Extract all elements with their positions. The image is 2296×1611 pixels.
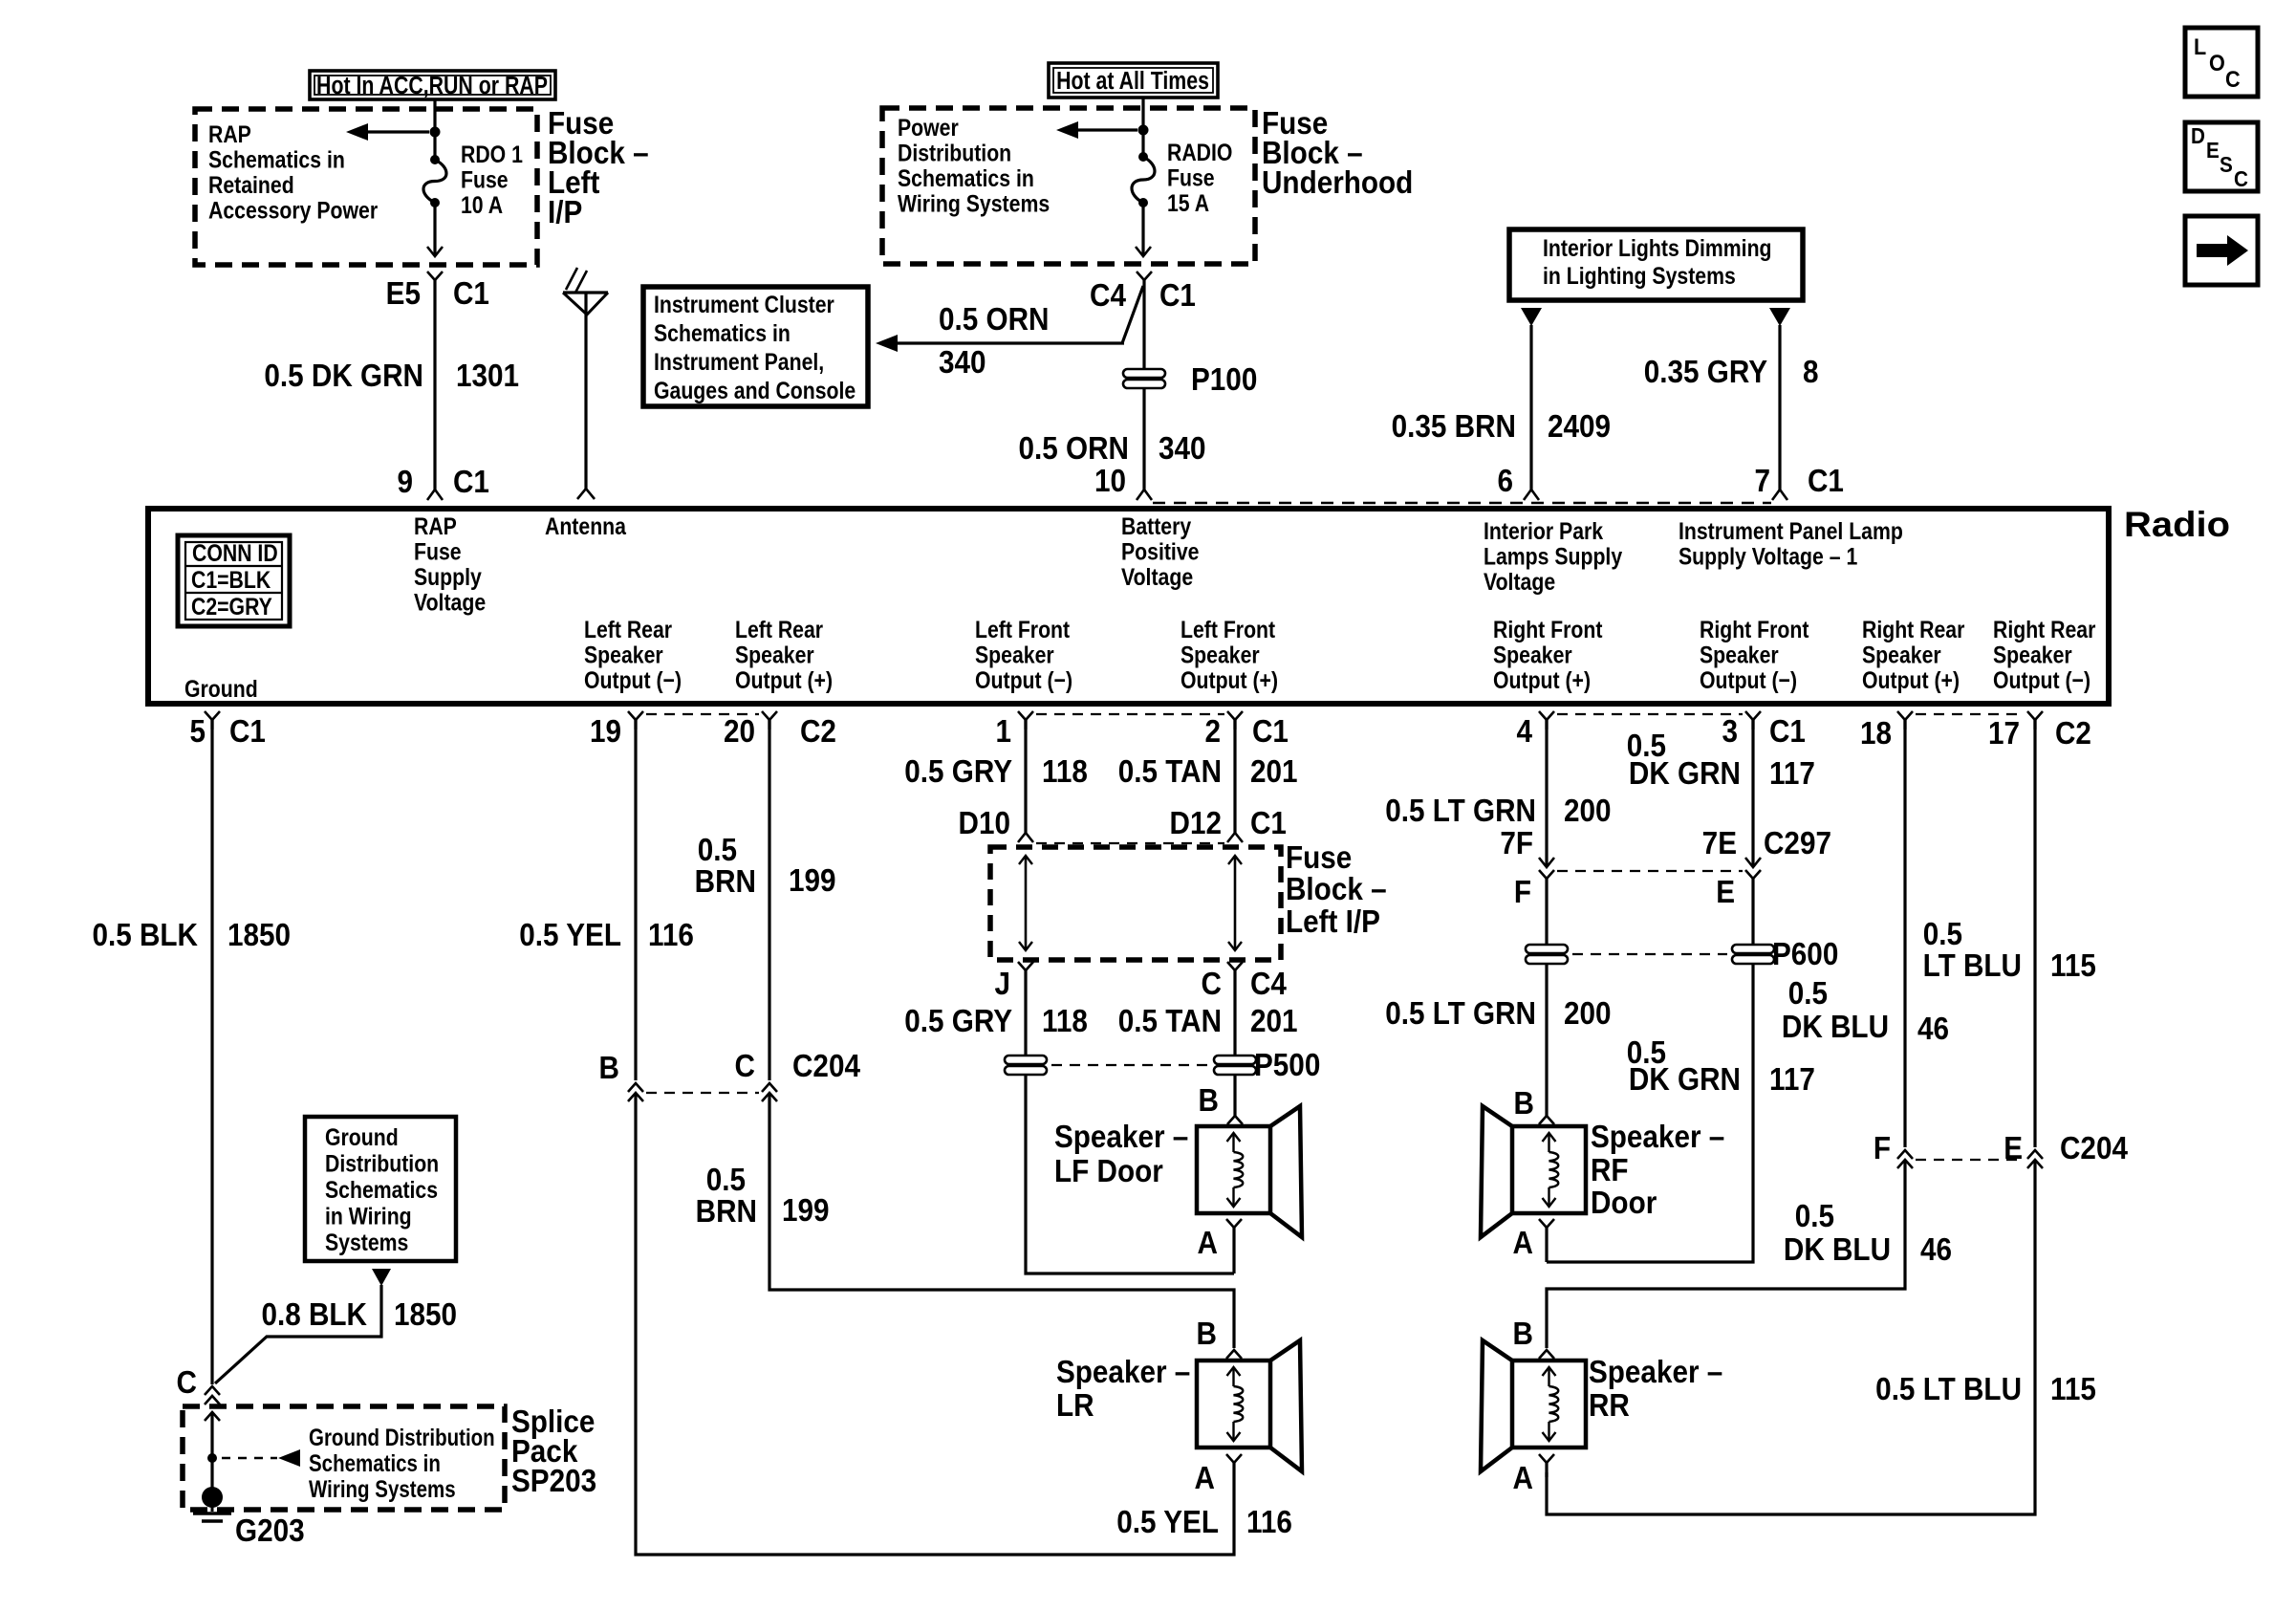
label 0.5 DK GRN 1301 xyxy=(264,359,519,394)
svg-text:Instrument Cluster: Instrument Cluster xyxy=(654,291,834,317)
svg-text:6: 6 xyxy=(1497,464,1513,499)
svg-text:116: 116 xyxy=(648,918,694,953)
label 17 C2 xyxy=(1988,716,2091,751)
triangle connector to panel lamp wire xyxy=(1769,308,1790,326)
svg-text:0.5 LT GRN: 0.5 LT GRN xyxy=(1385,996,1536,1032)
svg-text:118: 118 xyxy=(1042,754,1088,790)
inline connector P500 left half xyxy=(1005,1056,1047,1064)
inline connector P100 xyxy=(1123,369,1165,378)
svg-text:D12: D12 xyxy=(1170,806,1222,841)
connector 7E/C297 arrow xyxy=(1745,858,1761,867)
label C C204 xyxy=(735,1049,861,1084)
wire 201 to LF speaker B xyxy=(1233,970,1236,1117)
svg-text:C204: C204 xyxy=(2060,1131,2128,1166)
svg-text:199: 199 xyxy=(782,1193,830,1229)
label RADIO Fuse 15 A xyxy=(1167,139,1232,216)
svg-text:Right Rear: Right Rear xyxy=(1993,616,2095,642)
svg-text:Instrument Panel,: Instrument Panel, xyxy=(654,348,824,375)
radio pin name Interior Park Lamps Supply Voltage xyxy=(1484,517,1622,595)
svg-text:0.35 BRN: 0.35 BRN xyxy=(1392,409,1516,445)
radio pin name Left Front Speaker Output (-) xyxy=(975,616,1072,693)
DESC legend box xyxy=(2185,122,2258,191)
svg-text:Schematics in: Schematics in xyxy=(208,146,345,173)
svg-text:C1: C1 xyxy=(229,714,266,750)
connector A of LF speaker xyxy=(1226,1219,1242,1274)
inline connector P600 right half xyxy=(1732,945,1774,953)
svg-text:0.5 BLK: 0.5 BLK xyxy=(92,918,198,953)
svg-text:J: J xyxy=(994,967,1010,1002)
radio pin name Instrument Panel Lamp Supply Voltage - 1 xyxy=(1679,517,1903,570)
svg-text:F: F xyxy=(1514,875,1531,910)
svg-text:0.35 GRY: 0.35 GRY xyxy=(1644,355,1767,390)
svg-text:201: 201 xyxy=(1250,1004,1298,1039)
svg-text:C1: C1 xyxy=(453,465,489,500)
text Power Distribution Schematics in Wiring Systems xyxy=(898,114,1050,217)
svg-text:G203: G203 xyxy=(235,1513,305,1549)
dashed box Power Distribution (Fuse Block - Underhood) xyxy=(882,108,1255,264)
svg-text:C: C xyxy=(177,1365,197,1401)
svg-text:Output (−): Output (−) xyxy=(584,666,682,693)
connector E below C297 xyxy=(1745,870,1761,879)
svg-text:5: 5 xyxy=(189,714,206,750)
svg-text:P600: P600 xyxy=(1772,937,1838,972)
svg-text:Positive: Positive xyxy=(1121,538,1200,565)
dashed box Splice Pack SP203 xyxy=(183,1406,505,1510)
label F E C204 (rear) xyxy=(1874,1131,2129,1166)
svg-text:Voltage: Voltage xyxy=(414,589,486,616)
svg-text:Antenna: Antenna xyxy=(545,512,627,539)
speaker RR xyxy=(1512,1361,1586,1448)
svg-text:Wiring Systems: Wiring Systems xyxy=(309,1475,456,1502)
label 0.5 YEL 116 (bottom) xyxy=(1116,1505,1292,1540)
connector B of LR speaker xyxy=(1226,1350,1242,1359)
antenna symbol xyxy=(563,268,608,499)
svg-text:0.5 TAN: 0.5 TAN xyxy=(1118,754,1222,790)
svg-text:Right Rear: Right Rear xyxy=(1862,616,1964,642)
label 0.5 DK BLU 46 (lower) xyxy=(1784,1199,1952,1268)
fuse block internal jumper left xyxy=(1019,856,1032,950)
svg-text:Retained: Retained xyxy=(208,171,294,198)
svg-text:Voltage: Voltage xyxy=(1484,568,1555,595)
radio pin 7 connector xyxy=(1772,490,1787,500)
svg-text:Right Front: Right Front xyxy=(1493,616,1603,642)
svg-text:Right Front: Right Front xyxy=(1700,616,1809,642)
svg-text:201: 201 xyxy=(1250,754,1298,790)
svg-text:Output (−): Output (−) xyxy=(1700,666,1797,693)
radio pin name Left Rear Speaker Output (-) xyxy=(584,616,682,693)
svg-text:Left Rear: Left Rear xyxy=(735,616,823,642)
dashed connector grouping 4-3 xyxy=(1557,713,1743,715)
dashed connector grouping 18-17 xyxy=(1916,713,2025,715)
svg-text:Output (−): Output (−) xyxy=(1993,666,2090,693)
label 7 C1 xyxy=(1754,464,1843,499)
wire 1301 to radio pin 9 xyxy=(433,280,436,490)
svg-text:117: 117 xyxy=(1769,756,1815,792)
svg-text:0.5 LT GRN: 0.5 LT GRN xyxy=(1385,794,1536,829)
dashed connector C1 grouping line at radio top xyxy=(1153,502,1771,504)
svg-text:Schematics: Schematics xyxy=(325,1176,438,1203)
text Ground Distribution Schematics in Wiring Systems (splice) xyxy=(309,1424,495,1502)
label 0.5 LT BLU 115 (bottom) xyxy=(1875,1372,2096,1407)
radio pin 4 connector xyxy=(1539,711,1554,720)
dashed reference arrow to ground distribution schematics xyxy=(222,1449,300,1467)
label 0.5 GRY 118 0.5 TAN 201 (lower) xyxy=(904,1004,1297,1039)
svg-text:Underhood: Underhood xyxy=(1262,165,1413,201)
dashed connector line F-E C204 xyxy=(1916,1159,2025,1161)
svg-text:Fuse: Fuse xyxy=(414,538,462,565)
label 0.5 DK GRN 117 (lower) xyxy=(1627,1035,1815,1098)
svg-text:Distribution: Distribution xyxy=(898,140,1011,166)
wire 116 continues to LR speaker A loop xyxy=(636,1093,1234,1555)
svg-text:Speaker: Speaker xyxy=(584,642,663,668)
svg-text:O: O xyxy=(2209,50,2225,76)
LOC legend box xyxy=(2185,28,2258,97)
svg-text:199: 199 xyxy=(789,863,836,899)
svg-text:Speaker –: Speaker – xyxy=(1056,1355,1190,1390)
svg-text:Speaker –: Speaker – xyxy=(1589,1355,1722,1390)
svg-text:Interior Park: Interior Park xyxy=(1484,517,1603,544)
svg-text:B: B xyxy=(1514,1086,1534,1121)
inline connector P600 left half xyxy=(1526,945,1568,953)
svg-text:C: C xyxy=(2225,66,2241,92)
svg-text:10 A: 10 A xyxy=(461,191,503,218)
svg-text:C: C xyxy=(1202,967,1222,1002)
label 5 C1 xyxy=(189,714,265,750)
dashed box Fuse Block - Left I/P (speaker feed) xyxy=(990,847,1281,960)
radio pin 6 connector xyxy=(1524,490,1539,500)
svg-text:RDO 1: RDO 1 xyxy=(461,141,523,167)
svg-text:Ground: Ground xyxy=(184,675,258,702)
radio pin 9 connector xyxy=(427,490,443,500)
wire 2409 to radio pin 6 xyxy=(1529,325,1532,490)
svg-text:4: 4 xyxy=(1516,714,1532,750)
connector A of RF speaker xyxy=(1539,1219,1554,1262)
svg-text:Left Front: Left Front xyxy=(975,616,1070,642)
svg-text:C297: C297 xyxy=(1764,826,1831,861)
svg-text:DK BLU: DK BLU xyxy=(1782,1010,1889,1045)
label 0.5 GRY 118 0.5 TAN 201 (upper) xyxy=(904,754,1297,790)
wire 1850 from pin 5 xyxy=(210,720,213,1384)
svg-text:C204: C204 xyxy=(792,1049,860,1084)
label 9 C1 xyxy=(397,465,488,500)
CONN ID table xyxy=(178,535,290,626)
svg-text:RR: RR xyxy=(1589,1388,1630,1424)
wire 118 from pin 1 xyxy=(1024,720,1027,833)
svg-text:L: L xyxy=(2194,33,2206,59)
wire from header into fuse block xyxy=(1141,98,1144,157)
dashed connector line 7F-7E xyxy=(1557,870,1743,872)
label Fuse Block - Left I/P xyxy=(1286,840,1387,940)
fuse block internal jumper right xyxy=(1228,856,1242,950)
label J C C4 xyxy=(994,967,1287,1002)
label Speaker - LF Door xyxy=(1054,1120,1188,1189)
label Fuse Block - Left I/P xyxy=(548,106,649,230)
radio pin name Right Front Speaker Output (-) xyxy=(1700,616,1809,693)
connector B of RF speaker xyxy=(1539,1116,1554,1124)
svg-text:17: 17 xyxy=(1988,716,2020,751)
arrow legend box xyxy=(2185,216,2258,285)
svg-text:340: 340 xyxy=(939,345,986,381)
wire 340 to radio pin 10 xyxy=(1142,280,1145,490)
radio pin 17 connector xyxy=(2027,711,2043,720)
svg-text:Fuse: Fuse xyxy=(1167,164,1215,191)
svg-text:0.5 GRY: 0.5 GRY xyxy=(904,754,1012,790)
connector D12/C1 at fuse block xyxy=(1227,833,1243,842)
svg-text:Radio: Radio xyxy=(2124,505,2230,544)
svg-text:Speaker –: Speaker – xyxy=(1054,1120,1188,1155)
wire 115 to RR speaker A loop xyxy=(1547,1160,2035,1514)
svg-text:Left Rear: Left Rear xyxy=(584,616,672,642)
svg-text:E5: E5 xyxy=(386,276,421,312)
connector B of RR speaker xyxy=(1539,1350,1554,1359)
svg-text:E: E xyxy=(1716,875,1735,910)
svg-text:340: 340 xyxy=(1159,431,1206,467)
svg-text:0.5: 0.5 xyxy=(1795,1199,1834,1234)
svg-text:Hot In ACC,RUN or RAP: Hot In ACC,RUN or RAP xyxy=(316,72,548,100)
svg-text:0.5 YEL: 0.5 YEL xyxy=(519,918,621,953)
label 0.5 LT GRN 200 (lower) xyxy=(1385,996,1611,1032)
svg-text:Output (+): Output (+) xyxy=(1493,666,1591,693)
wire 0.5 ORN 340 branch with arrow xyxy=(876,286,1143,352)
svg-text:1850: 1850 xyxy=(227,918,291,953)
svg-text:115: 115 xyxy=(2050,948,2096,984)
connector E5/C1 at fuse block exit xyxy=(427,272,443,280)
label Speaker - RR xyxy=(1589,1355,1722,1424)
connector C/C4 below fuse block xyxy=(1227,962,1243,970)
svg-text:Door: Door xyxy=(1591,1186,1657,1221)
svg-text:A: A xyxy=(1198,1226,1218,1261)
svg-text:in Wiring: in Wiring xyxy=(325,1203,412,1230)
label 0.5 ORN 340 vertical xyxy=(1019,431,1206,467)
svg-text:D10: D10 xyxy=(959,806,1010,841)
svg-text:LR: LR xyxy=(1056,1388,1094,1424)
wire 199 from pin 20 xyxy=(768,720,770,1080)
svg-text:200: 200 xyxy=(1564,996,1612,1032)
svg-text:C1: C1 xyxy=(1252,714,1289,750)
svg-text:Power: Power xyxy=(898,114,959,141)
svg-text:C1: C1 xyxy=(1808,464,1844,499)
svg-text:46: 46 xyxy=(1920,1232,1952,1268)
svg-text:RAP: RAP xyxy=(414,512,457,539)
svg-text:0.5 ORN: 0.5 ORN xyxy=(1019,431,1129,467)
svg-text:0.5 TAN: 0.5 TAN xyxy=(1118,1004,1222,1039)
svg-text:C2: C2 xyxy=(800,714,836,750)
label 0.35 BRN 2409 xyxy=(1392,409,1611,445)
connector D10 at fuse block xyxy=(1018,833,1033,842)
svg-text:in Lighting Systems: in Lighting Systems xyxy=(1543,262,1736,289)
svg-text:B: B xyxy=(599,1051,619,1086)
wire 0.8 BLK 1850 to splice xyxy=(215,1285,381,1383)
svg-text:0.5 DK GRN: 0.5 DK GRN xyxy=(264,359,423,394)
radio pin name Right Rear Speaker Output (-) xyxy=(1993,616,2095,693)
connector C4/C1 below fuse block xyxy=(1137,272,1152,280)
svg-text:Battery: Battery xyxy=(1121,512,1191,539)
svg-text:C1: C1 xyxy=(453,276,489,312)
svg-text:0.5 GRY: 0.5 GRY xyxy=(904,1004,1012,1039)
connector J below fuse block xyxy=(1018,962,1033,970)
svg-text:Systems: Systems xyxy=(325,1229,408,1255)
box Ground Distribution Schematics in Wiring Systems xyxy=(305,1117,456,1261)
svg-text:C4: C4 xyxy=(1090,278,1126,314)
arrow to power distribution schematics xyxy=(1056,121,1137,139)
svg-text:Accessory Power: Accessory Power xyxy=(208,197,378,224)
svg-text:7E: 7E xyxy=(1702,826,1737,861)
wire 8 to radio pin 7 xyxy=(1778,325,1781,490)
svg-text:116: 116 xyxy=(1246,1505,1292,1540)
wire 199 continues to LR speaker B xyxy=(769,1093,1234,1348)
label 0.5 DK BLU 46 (upper) xyxy=(1782,976,1949,1047)
wire 115 from pin 17 xyxy=(2033,720,2036,1147)
svg-text:Distribution: Distribution xyxy=(325,1150,439,1177)
connector F below C297 xyxy=(1539,870,1554,879)
svg-text:P100: P100 xyxy=(1191,362,1257,398)
svg-text:C1=BLK: C1=BLK xyxy=(191,566,271,593)
connector A of RR speaker xyxy=(1539,1454,1554,1477)
svg-text:0.5 LT BLU: 0.5 LT BLU xyxy=(1875,1372,2022,1407)
wire 201 from pin 2 xyxy=(1233,720,1236,833)
connector C at splice pack xyxy=(205,1386,220,1395)
label Splice Pack SP203 xyxy=(511,1404,596,1499)
svg-text:115: 115 xyxy=(2050,1372,2096,1407)
svg-text:2: 2 xyxy=(1204,714,1221,750)
svg-text:Speaker: Speaker xyxy=(1993,642,2072,668)
connector B half of C204 xyxy=(628,1083,643,1092)
svg-text:DK BLU: DK BLU xyxy=(1784,1232,1891,1268)
text RAP Schematics in Retained Accessory Power xyxy=(208,120,378,224)
svg-text:E: E xyxy=(2206,138,2220,163)
svg-text:C2=GRY: C2=GRY xyxy=(191,593,272,620)
dashed connector grouping 19-20 xyxy=(646,713,759,715)
svg-text:0.5: 0.5 xyxy=(698,833,737,868)
svg-text:B: B xyxy=(1197,1317,1217,1352)
svg-text:Speaker: Speaker xyxy=(1862,642,1941,668)
svg-text:Speaker: Speaker xyxy=(735,642,814,668)
svg-text:C: C xyxy=(735,1049,755,1084)
wire 116 from pin 19 xyxy=(634,720,637,1080)
svg-text:P500: P500 xyxy=(1254,1048,1320,1083)
svg-text:LT BLU: LT BLU xyxy=(1923,948,2022,984)
label F E xyxy=(1514,875,1735,910)
svg-text:C1: C1 xyxy=(1250,806,1287,841)
radio pin 18 connector xyxy=(1897,711,1913,720)
svg-text:BRN: BRN xyxy=(696,1194,757,1230)
svg-text:0.8 BLK: 0.8 BLK xyxy=(261,1297,367,1333)
splice internal wire xyxy=(205,1412,220,1497)
label 0.5 BLK 1850 xyxy=(92,918,291,953)
svg-text:Schematics in: Schematics in xyxy=(654,319,791,346)
svg-text:C2: C2 xyxy=(2055,716,2091,751)
svg-text:Left Front: Left Front xyxy=(1180,616,1275,642)
radio pin 20 connector xyxy=(762,711,777,720)
svg-text:Output (+): Output (+) xyxy=(735,666,833,693)
svg-text:CONN ID: CONN ID xyxy=(192,539,278,566)
svg-text:0.5: 0.5 xyxy=(706,1163,746,1198)
connector F half of C204 rear xyxy=(1897,1150,1913,1159)
wire from header into fuse block xyxy=(433,99,436,160)
svg-text:B: B xyxy=(1513,1317,1533,1352)
svg-text:0.5 ORN: 0.5 ORN xyxy=(939,302,1049,337)
svg-text:2409: 2409 xyxy=(1548,409,1611,445)
label Speaker - LR xyxy=(1056,1355,1190,1424)
inline connector P500 right half xyxy=(1214,1056,1256,1064)
svg-text:9: 9 xyxy=(397,465,413,500)
label Fuse Block - Underhood xyxy=(1262,106,1413,201)
svg-text:0.5: 0.5 xyxy=(1923,917,1962,952)
svg-text:Left I/P: Left I/P xyxy=(1286,904,1380,940)
dashed connector grouping 1-2 xyxy=(1036,713,1224,715)
svg-text:200: 200 xyxy=(1564,794,1612,829)
svg-text:Output (+): Output (+) xyxy=(1862,666,1960,693)
radio pin name Left Rear Speaker Output (+) xyxy=(735,616,833,693)
component box Radio xyxy=(148,509,2109,704)
fuse RDO 1 10A xyxy=(423,155,446,256)
connector B of LF speaker xyxy=(1227,1116,1243,1124)
svg-text:C4: C4 xyxy=(1250,967,1287,1002)
radio pin 3 connector xyxy=(1745,711,1761,720)
svg-text:Fuse: Fuse xyxy=(461,166,509,193)
svg-text:Speaker: Speaker xyxy=(1700,642,1779,668)
svg-text:Supply Voltage – 1: Supply Voltage – 1 xyxy=(1679,543,1857,570)
svg-text:Voltage: Voltage xyxy=(1121,563,1193,590)
svg-text:A: A xyxy=(1195,1461,1215,1496)
svg-text:A: A xyxy=(1513,1226,1533,1261)
dashed connector line D10-D12 xyxy=(1036,842,1224,844)
label 0.5 BRN 199 (upper) xyxy=(695,833,836,900)
triangle connector from ground distribution box xyxy=(372,1269,391,1286)
svg-text:F: F xyxy=(1874,1131,1891,1166)
wire 117 from pin 3 xyxy=(1751,720,1754,866)
connector 7F arrow xyxy=(1539,858,1554,867)
dashed connector line B-C C204 xyxy=(646,1092,759,1094)
svg-text:C1: C1 xyxy=(1769,714,1806,750)
svg-text:Interior Lights Dimming: Interior Lights Dimming xyxy=(1543,234,1772,261)
label D10 D12 C1 xyxy=(959,806,1287,841)
dashed box RAP Schematics (Fuse Block - Left I/P) xyxy=(195,109,537,265)
svg-text:7: 7 xyxy=(1754,464,1770,499)
svg-text:Ground Distribution: Ground Distribution xyxy=(309,1424,495,1450)
svg-text:Hot at All Times: Hot at All Times xyxy=(1056,67,1209,96)
svg-text:117: 117 xyxy=(1769,1062,1815,1098)
svg-text:Speaker: Speaker xyxy=(1493,642,1572,668)
wire 46 from pin 18 xyxy=(1903,720,1906,1147)
radio pin name Right Front Speaker Output (+) xyxy=(1493,616,1603,693)
label 0.5 LT BLU 115 (upper) xyxy=(1923,917,2096,984)
svg-text:RAP: RAP xyxy=(208,120,251,147)
label 0.5 ORN 340 xyxy=(939,302,1049,381)
dashed connector line P500 xyxy=(1051,1064,1209,1066)
label E5 C1 xyxy=(386,276,489,312)
svg-text:A: A xyxy=(1513,1461,1533,1496)
svg-text:Speaker: Speaker xyxy=(975,642,1054,668)
radio pin 1 connector xyxy=(1018,711,1033,720)
svg-text:1850: 1850 xyxy=(394,1297,457,1333)
svg-text:S: S xyxy=(2220,152,2233,177)
radio pin 10 connector xyxy=(1137,490,1152,500)
svg-text:20: 20 xyxy=(724,714,755,750)
svg-text:Supply: Supply xyxy=(414,563,482,590)
svg-text:DK GRN: DK GRN xyxy=(1629,1062,1741,1098)
triangle connector to interior park lamps wire xyxy=(1521,308,1542,326)
speaker LF Door xyxy=(1197,1126,1270,1213)
svg-text:1: 1 xyxy=(995,714,1011,750)
svg-text:0.5: 0.5 xyxy=(1788,976,1828,1012)
svg-text:Block –: Block – xyxy=(1286,872,1387,907)
box Instrument Cluster Schematics xyxy=(643,287,868,406)
label 0.5 YEL 116 xyxy=(519,918,694,953)
svg-text:Fuse: Fuse xyxy=(1286,840,1352,876)
svg-text:BRN: BRN xyxy=(695,864,756,900)
svg-text:Lamps Supply: Lamps Supply xyxy=(1484,543,1622,570)
